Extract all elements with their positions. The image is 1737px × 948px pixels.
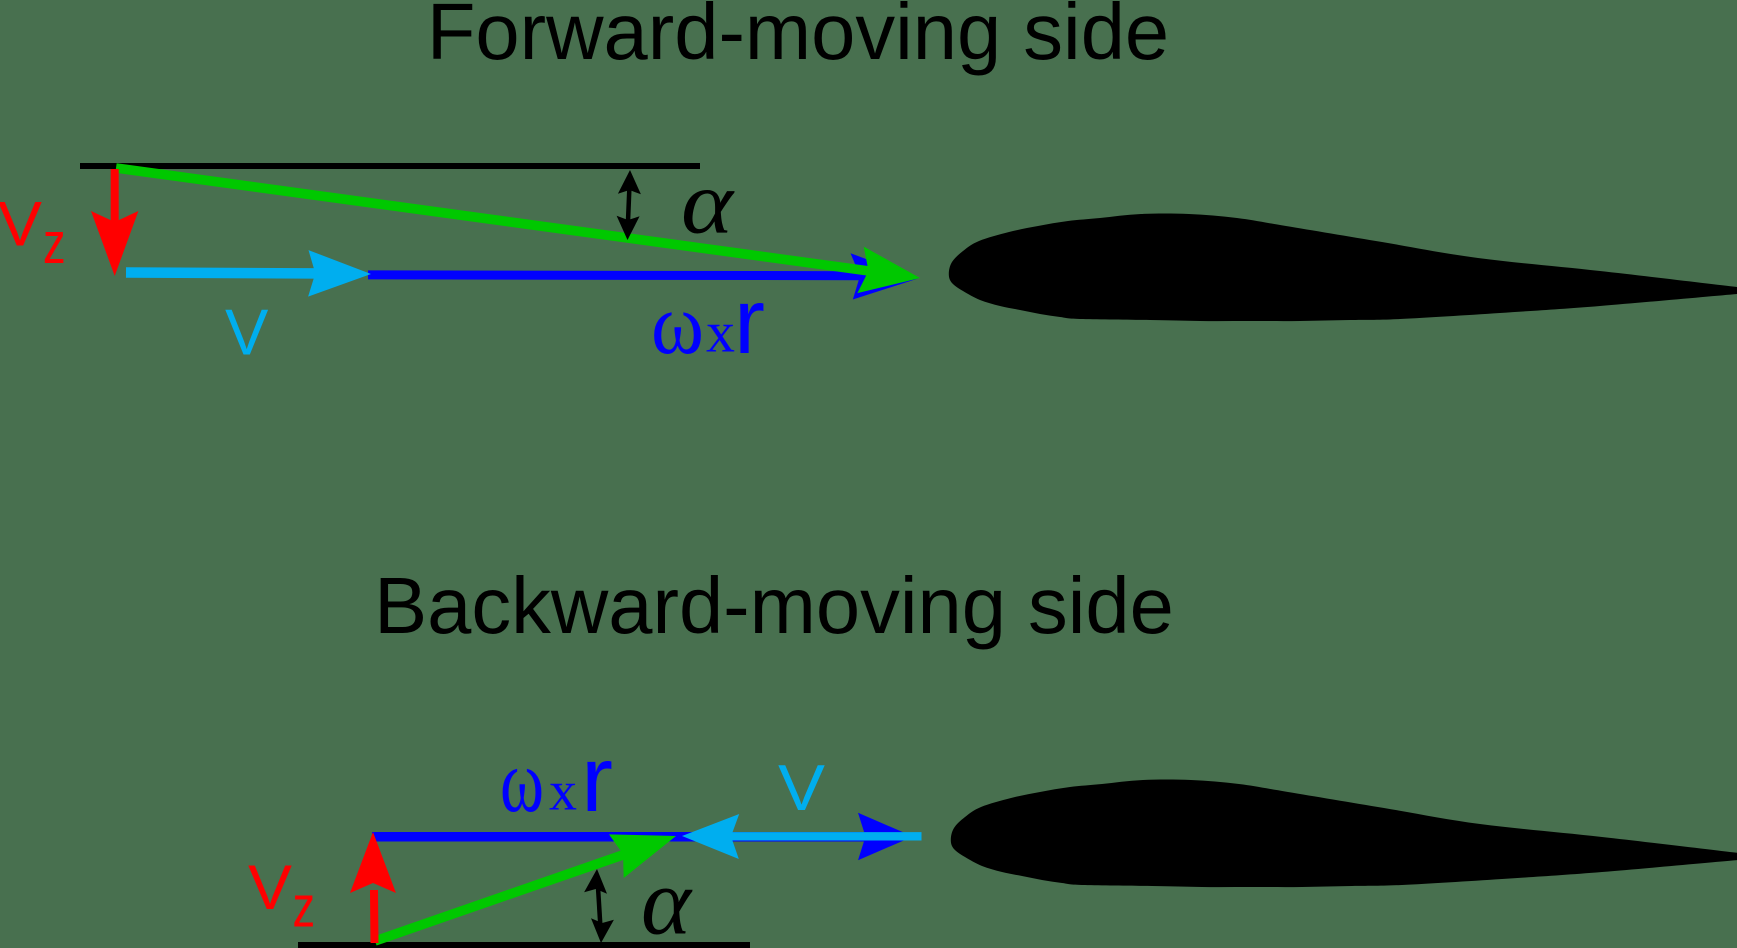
bottom alpha arrow upper head [584, 869, 607, 894]
bottom red vector Vz head [350, 832, 396, 893]
top chord reference line [80, 163, 700, 169]
svg-text:Backward-moving side: Backward-moving side [374, 561, 1174, 650]
svg-text:Forward-moving side: Forward-moving side [427, 0, 1169, 76]
svg-text:α: α [681, 154, 735, 253]
svg-text:r: r [734, 269, 765, 373]
bottom alpha angle double arrow shaft [598, 884, 601, 928]
svg-text:z: z [43, 212, 66, 277]
bottom green resultant vector shaft [375, 846, 650, 942]
svg-text:z: z [293, 875, 316, 940]
bottom blue vector omega-x-r head [858, 813, 913, 860]
top cyan vector V shaft [126, 273, 330, 274]
bottom airfoil [951, 779, 1737, 887]
top cyan vector V head [308, 250, 371, 297]
top red vector Vz head [91, 211, 138, 276]
top alpha angle double arrow shaft [628, 185, 630, 226]
svg-text:V: V [0, 190, 42, 260]
svg-text:V: V [778, 751, 826, 824]
bottom cyan vector V head (points left) [682, 814, 739, 859]
bottom red vector Vz shaft [370, 890, 379, 943]
top blue vector omega-x-r head [851, 253, 919, 299]
top alpha arrow lower head [617, 216, 640, 240]
top red vector Vz shaft [111, 169, 119, 235]
bottom green resultant vector head [609, 834, 676, 878]
svg-text:x: x [706, 300, 735, 365]
bottom alpha arrow lower head [591, 918, 614, 943]
bottom cyan vector V shaft [730, 832, 922, 840]
svg-text:V: V [248, 853, 292, 923]
bottom chord reference line [298, 942, 750, 948]
top blue vector omega-x-r shaft [368, 270, 865, 280]
top alpha arrow upper head [618, 170, 641, 194]
svg-text:ω: ω [651, 275, 704, 372]
svg-text:ω: ω [500, 732, 544, 831]
top green resultant vector head [857, 247, 920, 294]
bottom blue vector omega-x-r shaft [372, 832, 890, 842]
top green resultant vector shaft [116, 168, 890, 274]
top airfoil [949, 213, 1737, 321]
svg-text:α: α [641, 849, 693, 948]
svg-text:r: r [581, 727, 613, 831]
svg-text:V: V [225, 296, 269, 369]
svg-text:x: x [549, 761, 577, 823]
